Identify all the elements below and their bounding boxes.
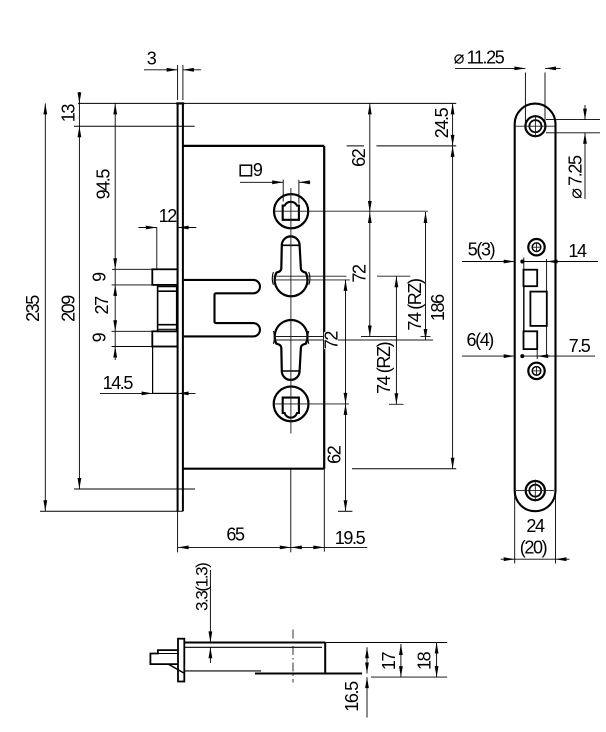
middle guide piece: [158, 285, 177, 331]
dim 24 right arrow: [556, 558, 570, 560]
dim 7.5 arrow: [537, 355, 549, 357]
svg-text:24: 24: [526, 516, 545, 536]
lower piece: [153, 347, 178, 394]
dim sq9 arrow right: [299, 181, 310, 183]
dim 9a line: [114, 269, 116, 285]
svg-text:17: 17: [379, 652, 399, 671]
dim 62 bottom line: [345, 404, 347, 511]
tick d7.25 top: [546, 119, 600, 121]
cylinder axis centerline side: [292, 630, 294, 683]
dim d11.25 left arrow: [455, 67, 525, 69]
screw top cross v: [534, 115, 536, 138]
svg-text:9: 9: [89, 272, 109, 282]
ext line plate bottom: [40, 510, 183, 512]
dim 24.5 line: [452, 103, 454, 145]
dim 186 line: [452, 146, 454, 469]
svg-text:65: 65: [226, 524, 245, 544]
cylinder 2 std line a: [274, 336, 325, 338]
dim 19.5 line: [291, 546, 325, 548]
svg-text:19.5: 19.5: [335, 528, 366, 548]
case bottom edge side view: [255, 673, 362, 675]
ext sq9 right: [298, 180, 300, 204]
upper lug: [152, 269, 177, 285]
dim 3 arrow left: [144, 69, 178, 71]
dim 62 top line: [369, 103, 371, 212]
svg-text:72: 72: [321, 331, 341, 350]
plate top edge: [176, 102, 184, 104]
cylinder 2 std tick right: [421, 336, 431, 338]
follower 2 boss circle: [274, 387, 309, 422]
svg-text:14: 14: [568, 241, 587, 261]
latch cutout lower: [524, 331, 538, 349]
dim 27 line: [114, 285, 116, 331]
vertical centerline: [290, 188, 292, 434]
svg-text:62: 62: [349, 148, 369, 167]
svg-text:62: 62: [325, 445, 345, 464]
ext d11.25 left: [524, 73, 526, 124]
dim 94.5 line: [114, 103, 116, 269]
dim 19.5 tail: [324, 546, 367, 548]
dim 17 line: [400, 644, 402, 677]
faceplate outline: [515, 104, 556, 512]
lug bevel line: [158, 653, 178, 655]
svg-text:235: 235: [23, 295, 43, 322]
hole 3 cross h: [532, 370, 542, 372]
dim 74RZ A line: [425, 212, 427, 340]
ext line case top a: [347, 145, 365, 147]
label square 9: [240, 165, 251, 176]
hole 3 outer: [528, 363, 544, 379]
svg-text:5(3): 5(3): [468, 240, 495, 260]
svg-text:9: 9: [89, 332, 109, 342]
ext line bottom screw: [74, 488, 195, 490]
screw bottom cross h: [516, 490, 554, 492]
case end side view: [324, 643, 326, 674]
svg-text:7.5: 7.5: [569, 336, 591, 356]
ext d11.25 right: [544, 73, 546, 123]
fork slot cutout: [184, 280, 260, 337]
ext tick plate bottom right: [338, 510, 352, 512]
faceplate side view: [178, 639, 184, 682]
cylinder 2 stem chord: [282, 370, 300, 372]
dim 13 line: [78, 103, 80, 126]
dim 3.3 bottom arrow: [209, 647, 211, 663]
case top edge side view: [184, 642, 325, 644]
dim 209 line: [78, 126, 80, 489]
cover outer line: [371, 676, 447, 678]
dim 12 arrow left: [138, 227, 156, 229]
follower 2 RZ tick: [389, 403, 404, 405]
case bottom edge: [183, 468, 324, 470]
case top edge: [183, 145, 324, 147]
ext sq9 left: [282, 180, 284, 202]
guide line 4: [158, 328, 177, 330]
screw hole top: [529, 120, 541, 132]
cutout left edge: [523, 286, 525, 331]
cylinder 2 std line b: [361, 336, 397, 338]
svg-text:14.5: 14.5: [103, 373, 134, 393]
screw hole bottom countersink: [526, 481, 545, 500]
cylinder 2 RZ line: [274, 339, 434, 341]
hole 2 inner: [532, 243, 541, 252]
lower lug: [152, 331, 177, 346]
ext lug2 bottom: [112, 346, 153, 348]
dim 24 line: [515, 558, 556, 560]
cylinder 1 std line: [274, 279, 350, 281]
dim d7.25 top arrow: [584, 105, 586, 120]
cylinder 1 profile hole: [275, 236, 308, 296]
dim 72 B line: [345, 280, 347, 404]
cylinder 2 profile hole: [275, 320, 308, 380]
svg-text:(20): (20): [520, 538, 547, 558]
ext 7.5: [536, 349, 538, 359]
svg-text:13: 13: [58, 104, 78, 123]
svg-text:94.5: 94.5: [93, 169, 113, 200]
svg-text:186: 186: [428, 294, 448, 321]
svg-text:⌀ 7.25: ⌀ 7.25: [566, 155, 586, 199]
ext line case bottom: [352, 468, 456, 470]
svg-text:3.3(1.3): 3.3(1.3): [193, 563, 212, 611]
lug chamfer: [168, 664, 183, 673]
cylinder 2 recess arc left: [273, 331, 274, 344]
faceplate front line: [177, 103, 179, 511]
ext 24 left: [514, 491, 516, 564]
dim 13 top arrow: [78, 92, 80, 103]
dim sq9 arrow left: [240, 181, 283, 183]
dim 3.3 top arrow: [209, 570, 211, 642]
svg-text:27: 27: [92, 296, 112, 315]
cylinder 1 recess arc left: [272, 272, 273, 285]
tick d7.25 bottom: [546, 132, 600, 134]
follower 1 square hole 9mm: [283, 202, 299, 220]
guide line 3: [158, 324, 177, 326]
ext 3 left: [177, 65, 179, 100]
svg-text:3: 3: [147, 48, 157, 68]
svg-text:16.5: 16.5: [342, 681, 362, 712]
svg-text:12: 12: [159, 206, 178, 226]
dim 14 arrow: [547, 261, 559, 263]
ext 19.5 right: [323, 469, 325, 552]
dim 72 A line: [369, 212, 371, 337]
dim 14.5 arrow right: [178, 392, 196, 394]
cylinder 1 RZ line a: [274, 275, 347, 277]
dim 12 arrow right: [178, 227, 197, 229]
dim 14.5 arrow left: [100, 392, 153, 394]
ext 24 right: [555, 491, 557, 564]
ext 3 right: [182, 65, 184, 100]
follower 1 centerline: [274, 210, 428, 212]
svg-text:6(4): 6(4): [466, 330, 493, 350]
cylinder 1 RZ line b: [377, 275, 410, 277]
screw hole bottom: [529, 485, 541, 497]
hole 3 cross v: [536, 366, 538, 376]
ext 65 right cylinder axis: [290, 469, 292, 553]
screw bottom cross v: [534, 480, 536, 502]
ext 5(3): [523, 258, 525, 270]
ext 65 left: [177, 511, 179, 552]
ext 14: [546, 259, 548, 356]
hole 2 outer: [528, 239, 544, 255]
screw top cross h: [515, 125, 556, 127]
dim 7.5 line: [522, 355, 595, 357]
hole 2 cross h: [532, 246, 542, 248]
dim 18 line: [436, 643, 438, 678]
hole 2 cross v: [536, 242, 538, 252]
ext lug1 bottom: [112, 284, 153, 286]
dim d7.25 bottom arrow: [584, 133, 586, 199]
hole 3 inner: [532, 367, 541, 376]
dim 17a line: [366, 647, 368, 673]
ext line plate top: [78, 102, 456, 104]
ext top side view: [325, 642, 447, 644]
svg-text:74 (RZ): 74 (RZ): [405, 279, 425, 331]
dim 3 arrow right: [183, 69, 201, 71]
dim 24 left arrow: [501, 558, 515, 560]
svg-text:209: 209: [58, 295, 78, 322]
dim 74RZ B line: [395, 276, 397, 404]
cover plate line: [184, 646, 322, 648]
ext line screw axis top (13): [74, 125, 195, 127]
guide line 2: [158, 290, 177, 292]
svg-text:24.5: 24.5: [432, 107, 452, 138]
ext 12: [156, 228, 158, 270]
dim d11.25 right arrow: [545, 67, 561, 69]
dim 16.5 line: [366, 677, 368, 717]
follower 2 square hole: [283, 398, 299, 418]
cylinder 1 recess arc right: [309, 272, 310, 285]
svg-text:18: 18: [414, 651, 434, 670]
gear box cutout: [530, 292, 546, 326]
dim 5(3) line: [462, 261, 515, 263]
case right edge: [323, 146, 325, 469]
screw hole top countersink: [525, 116, 545, 136]
svg-text:74 (RZ): 74 (RZ): [374, 342, 394, 394]
ext lug1 top: [112, 268, 152, 270]
dim 65 line: [178, 546, 291, 548]
cylinder 2 recess arc right: [308, 331, 309, 344]
dim 6(4) line: [462, 355, 515, 357]
follower 1 boss circle: [274, 194, 308, 228]
dim 14 line: [522, 261, 598, 263]
dim dot 5(3): [520, 260, 524, 264]
lug side view stepped outline: [150, 650, 178, 664]
case bottom inner line: [184, 670, 261, 672]
guide line 1: [158, 286, 177, 288]
cylinder 1 stem chord: [282, 244, 300, 246]
latch cutout upper: [524, 270, 538, 287]
ext line case top b: [376, 145, 456, 147]
dim 9b line: [114, 331, 116, 346]
faceplate back line: [182, 103, 184, 511]
svg-text:9: 9: [253, 160, 263, 180]
dim 235 line: [44, 103, 46, 511]
svg-text:⌀ 11.25: ⌀ 11.25: [454, 47, 505, 67]
svg-text:72: 72: [349, 264, 369, 283]
follower 2 centerline: [274, 403, 350, 405]
ext lug2 top: [112, 330, 153, 332]
dim 9b tail arrow: [114, 347, 116, 361]
dim dot 6(4): [520, 354, 524, 358]
